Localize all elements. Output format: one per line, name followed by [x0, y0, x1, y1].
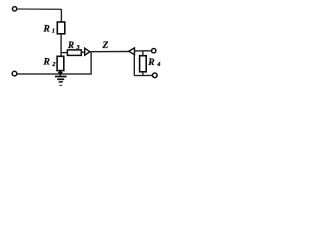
- svg-text:3: 3: [76, 44, 80, 51]
- input terminal top-left: [12, 7, 16, 11]
- svg-text:R: R: [43, 57, 50, 67]
- svg-text:4: 4: [156, 61, 160, 68]
- output terminal bottom-right: [153, 73, 158, 78]
- ground bar 1: [55, 76, 67, 78]
- bottom rail left: [17, 73, 92, 75]
- connector arrow right-pointing: [85, 48, 90, 55]
- wire to output terminal top: [135, 50, 152, 52]
- wire R1 to R2: [60, 34, 62, 57]
- resistor R1: [57, 22, 65, 34]
- wire R4 top stub: [142, 51, 144, 56]
- wire Z line: [90, 51, 129, 53]
- wire shield drop right: [133, 52, 135, 76]
- ground bar 4: [59, 84, 62, 86]
- svg-text:2: 2: [51, 61, 55, 68]
- wire R4 bottom stub: [142, 72, 144, 76]
- ground stub: [59, 74, 61, 77]
- output terminal top-right: [152, 49, 156, 53]
- bottom rail right: [134, 74, 152, 76]
- svg-text:R: R: [43, 25, 50, 35]
- svg-text:R: R: [147, 58, 154, 68]
- junction wedge at ground node: [58, 71, 63, 75]
- wire down to R1: [60, 9, 62, 22]
- svg-text:R: R: [67, 40, 74, 50]
- connector arrow left-pointing: [129, 48, 135, 55]
- ground bar 2: [57, 78, 64, 80]
- wire shield drop left: [90, 52, 92, 75]
- resistor R2: [57, 56, 64, 70]
- resistor R4: [140, 56, 147, 72]
- input terminal bottom-left: [12, 71, 17, 76]
- resistor R3: [67, 50, 81, 56]
- wire R3 to connector: [81, 51, 85, 53]
- wire top horizontal: [17, 8, 62, 10]
- svg-text:Z: Z: [102, 41, 109, 51]
- ground bar 3: [59, 81, 63, 83]
- wire node to R3: [61, 52, 68, 54]
- svg-text:1: 1: [52, 27, 55, 34]
